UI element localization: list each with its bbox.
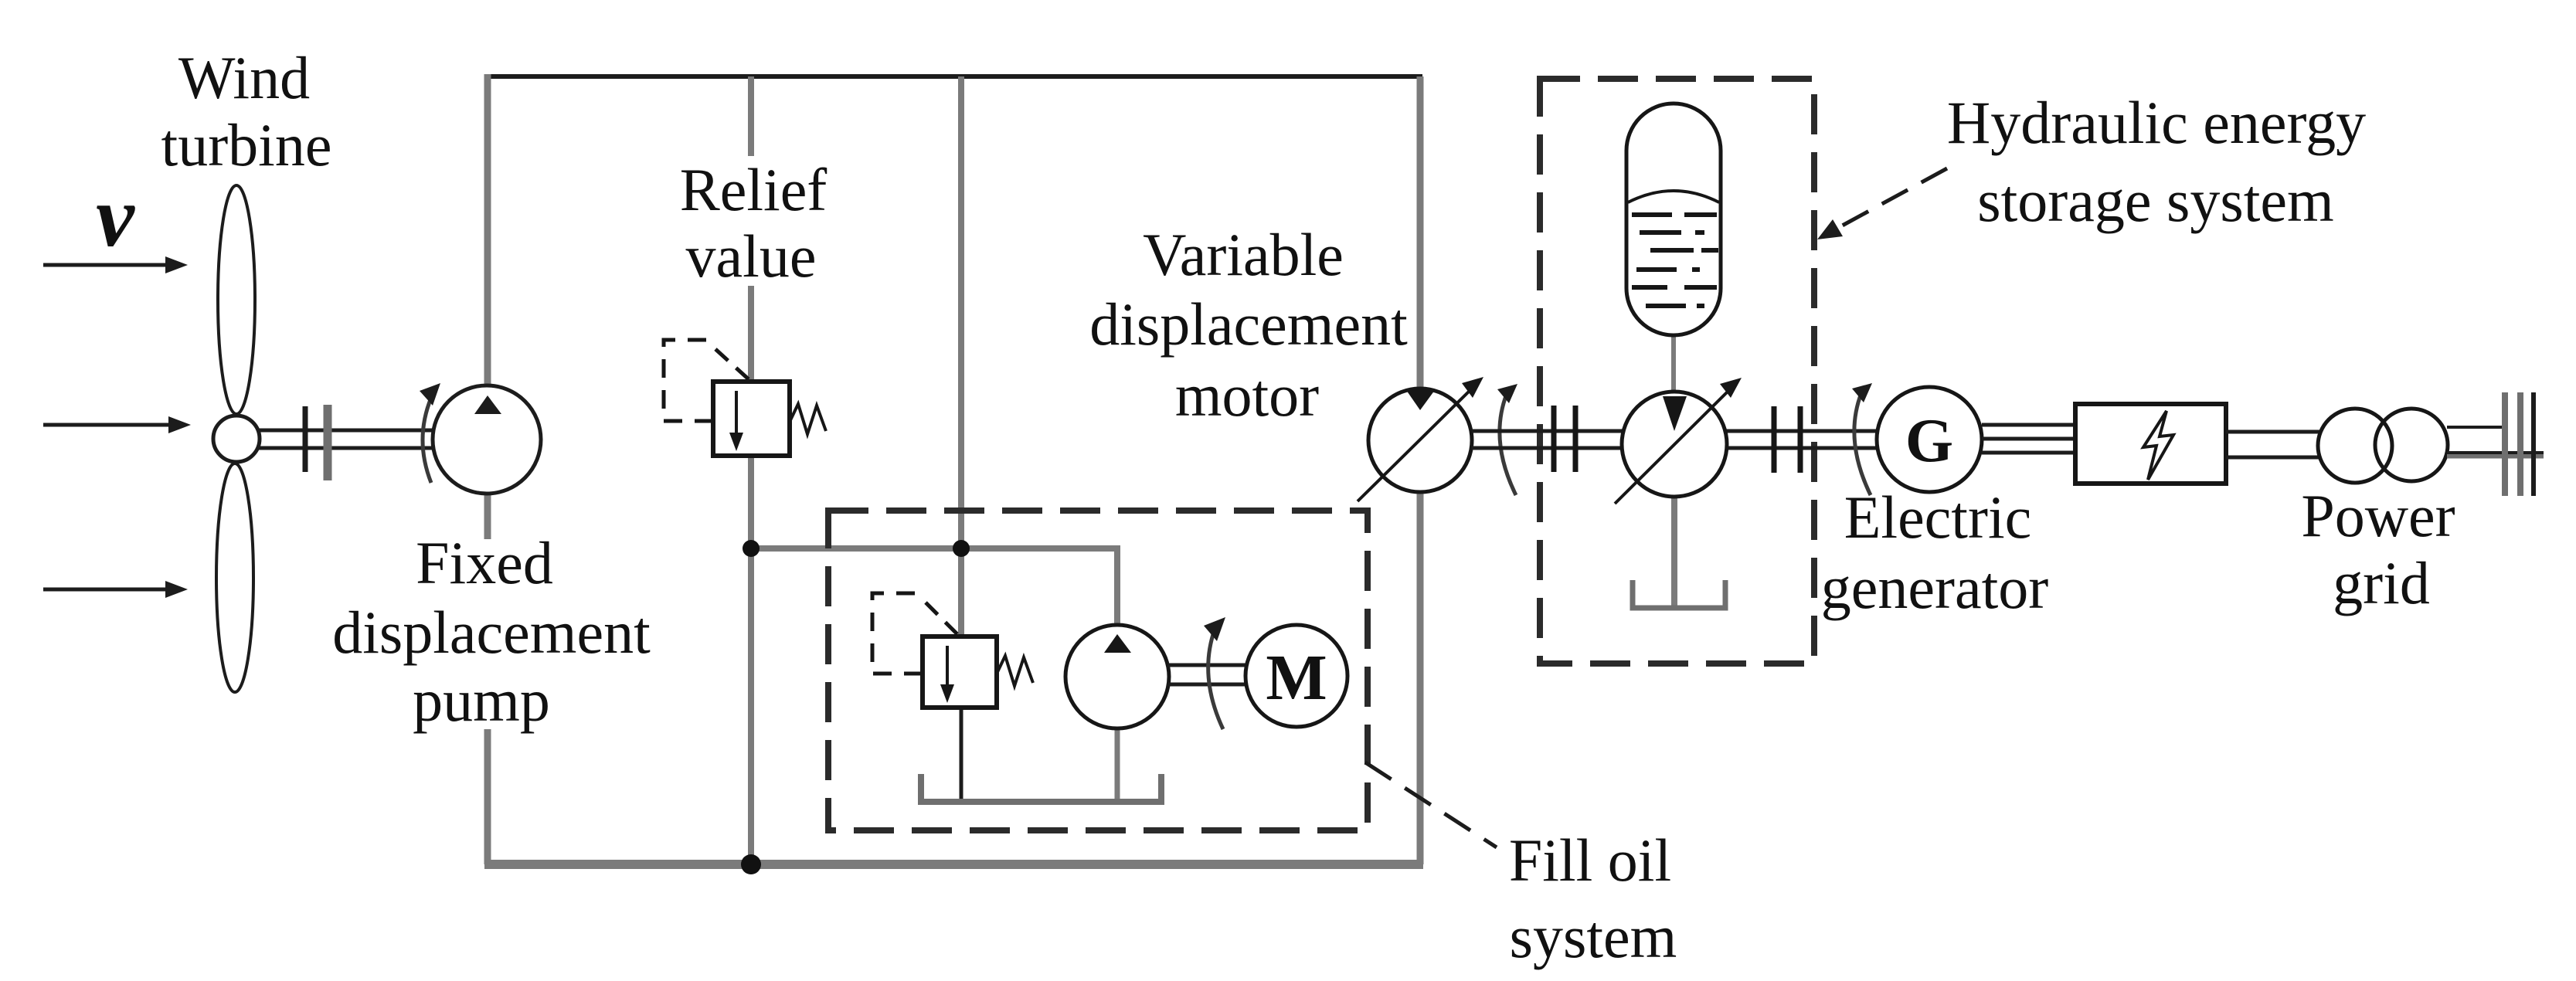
node B junction fill branch bbox=[953, 540, 970, 557]
svg-text:Electric: Electric bbox=[1844, 484, 2032, 551]
svg-text:Variable: Variable bbox=[1143, 221, 1344, 288]
fill relief valve R2 bbox=[923, 636, 1033, 708]
svg-text:displacement: displacement bbox=[1089, 290, 1408, 358]
fixed displacement pump bbox=[433, 385, 541, 494]
storage unit variable arrow bbox=[1615, 378, 1742, 504]
wires generator to converter bbox=[1982, 425, 2076, 453]
converter box bbox=[2075, 404, 2226, 484]
label Variable displacement motor bbox=[1089, 221, 1408, 429]
coupling turbine-pump bar2 bbox=[324, 405, 332, 480]
fill oil system dashed box bbox=[828, 511, 1368, 830]
wire mid horizontal node line bbox=[751, 545, 1118, 552]
coupling storage-generator bar1 bbox=[1772, 406, 1777, 473]
svg-text:grid: grid bbox=[2333, 549, 2430, 616]
svg-text:motor: motor bbox=[1175, 362, 1319, 429]
svg-text:Relief: Relief bbox=[680, 156, 828, 223]
svg-text:Fill oil: Fill oil bbox=[1509, 827, 1671, 894]
coupling VDM-storage bar2 bbox=[1573, 406, 1579, 472]
storage tank bbox=[1633, 580, 1725, 608]
VDM rotation arrow bbox=[1497, 384, 1517, 495]
svg-text:system: system bbox=[1510, 903, 1677, 970]
generator rotation arrow bbox=[1852, 383, 1872, 495]
hydraulic storage dashed box bbox=[1540, 79, 1814, 664]
wind arrow (middle) bbox=[43, 416, 191, 433]
wire main loop right edge bbox=[1417, 76, 1424, 864]
transformer bbox=[2318, 409, 2448, 483]
svg-text:storage system: storage system bbox=[1977, 167, 2333, 234]
wind arrow (bottom) bbox=[43, 581, 188, 598]
wire fill relief valve outlet bbox=[960, 708, 963, 803]
electric generator G bbox=[1877, 387, 1982, 492]
accumulator bbox=[1626, 104, 1721, 335]
coupling storage-generator bar2 bbox=[1798, 406, 1803, 473]
power grid busbar bbox=[2505, 392, 2534, 496]
wire relief valve branch bbox=[748, 76, 754, 864]
wires converter to transformer bbox=[2226, 432, 2321, 457]
relief valve R1 bbox=[713, 382, 826, 456]
svg-text:generator: generator bbox=[1821, 554, 2049, 621]
svg-text:M: M bbox=[1266, 642, 1327, 714]
wire drop to fill pump bbox=[1114, 545, 1120, 627]
relief valve R1 pilot dashed bbox=[664, 340, 749, 421]
label Power grid bbox=[2301, 482, 2455, 616]
wire main loop left edge bbox=[484, 74, 491, 864]
node A junction relief/mid line bbox=[743, 540, 760, 557]
label Electric generator bbox=[1821, 484, 2049, 621]
wind turbine upper blade bbox=[218, 185, 255, 414]
fill pump rotation arrow bbox=[1204, 617, 1225, 729]
svg-text:value: value bbox=[686, 222, 817, 290]
wire accumulator to storage unit bbox=[1671, 332, 1676, 395]
svg-text:Wind: Wind bbox=[178, 44, 310, 111]
pump rotation arrow bbox=[420, 383, 440, 483]
wire fill pump drain bbox=[1115, 727, 1120, 803]
electric motor M bbox=[1246, 625, 1347, 727]
wires transformer to busbar bbox=[2447, 427, 2544, 455]
coupling turbine-pump bar1 bbox=[303, 406, 308, 472]
svg-text:v: v bbox=[96, 169, 135, 265]
svg-text:turbine: turbine bbox=[161, 111, 332, 178]
wire fill branch vertical bbox=[958, 76, 964, 636]
node C junction bottom edge bbox=[741, 854, 761, 874]
coupling VDM-storage bar1 bbox=[1551, 406, 1557, 472]
leader to Fill oil system label bbox=[1365, 762, 1497, 847]
wind arrow v (top) bbox=[43, 256, 188, 273]
label Wind turbine bbox=[161, 44, 332, 178]
VDM variable arrow bbox=[1358, 377, 1483, 501]
wire storage unit drain bbox=[1671, 494, 1677, 608]
wind turbine lower blade bbox=[216, 463, 253, 692]
label v bbox=[96, 169, 135, 265]
fill relief valve R2 pilot dashed bbox=[872, 593, 958, 674]
wire main loop bottom edge bbox=[484, 860, 1423, 869]
leader to Hydraulic storage label bbox=[1817, 168, 1947, 239]
wind turbine hub bbox=[213, 416, 260, 462]
svg-text:pump: pump bbox=[413, 667, 550, 734]
label Fixed displacement pump bbox=[332, 529, 651, 734]
svg-text:displacement: displacement bbox=[332, 599, 651, 666]
variable displacement motor bbox=[1368, 389, 1472, 492]
label Hydraulic energy storage system bbox=[1947, 89, 2366, 234]
fill tank bbox=[921, 774, 1161, 802]
svg-text:Fixed: Fixed bbox=[416, 529, 553, 596]
wire main loop top edge bbox=[485, 74, 1422, 79]
label Relief value bbox=[680, 156, 828, 290]
text background masks bbox=[328, 156, 845, 729]
main shaft VDM to generator bbox=[1472, 431, 1877, 448]
fill pump bbox=[1065, 625, 1169, 728]
storage variable pump-motor bbox=[1622, 392, 1727, 497]
shaft turbine to pump bbox=[255, 430, 433, 448]
svg-text:Hydraulic energy: Hydraulic energy bbox=[1947, 89, 2366, 156]
svg-text:Power: Power bbox=[2301, 482, 2455, 549]
label Fill oil system bbox=[1509, 827, 1677, 970]
svg-text:G: G bbox=[1905, 407, 1953, 475]
lightning symbol bbox=[2143, 411, 2173, 480]
shaft fill pump to motor bbox=[1167, 665, 1247, 684]
